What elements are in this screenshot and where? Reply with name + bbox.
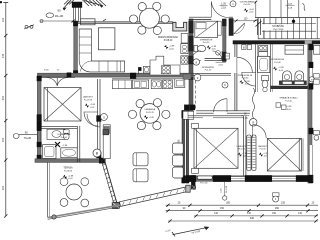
terrace round table with chairs	[66, 184, 82, 200]
wc tags	[193, 59, 199, 65]
corridor wall y116	[188, 115, 243, 117]
wc small rect	[226, 53, 230, 59]
vanity double sink	[283, 71, 292, 81]
wc door arcs	[192, 51, 202, 61]
unit2 bathroom fixtures	[259, 45, 268, 51]
roof slope lines	[63, 1, 71, 9]
wall between bedrooms	[243, 116, 245, 176]
svg-text:P=4,50: P=4,50	[244, 4, 251, 6]
small fixture symbol	[25, 25, 28, 28]
svg-text:P=9,40: P=9,40	[285, 100, 292, 102]
vertical dimension ruler left	[5, 3, 7, 217]
vestibule door leaf	[234, 23, 245, 34]
svg-text:P=5,80: P=5,80	[274, 62, 281, 64]
svg-text:LANDSKT: LANDSKT	[237, 145, 247, 148]
svg-text:P=1,50: P=1,50	[205, 70, 212, 72]
bedroom1 left exterior wall	[37, 76, 41, 160]
svg-text:+2,85: +2,85	[149, 117, 154, 119]
dining table with 6 chairs	[139, 8, 159, 28]
duct tall rect	[103, 125, 110, 159]
veranda thin wall x98	[97, 79, 99, 158]
svg-text:-0,05: -0,05	[211, 49, 215, 51]
right outside marks	[314, 74, 320, 78]
svg-text:P=17,50: P=17,50	[84, 99, 93, 101]
svg-text:90: 90	[57, 9, 61, 13]
svg-text:P=28,40: P=28,40	[164, 40, 173, 42]
circle tag A	[101, 114, 108, 121]
bottom dimension chains	[166, 204, 318, 206]
circle tag right wall	[309, 77, 314, 82]
svg-text:290: 290	[275, 207, 280, 210]
dim tag circle	[273, 193, 279, 197]
entry tag boxes	[242, 45, 246, 50]
bottom exterior wall with windows	[186, 176, 313, 182]
main vertical wall center	[189, 19, 193, 111]
svg-text:200: 200	[1, 185, 5, 190]
dashed line corridor	[195, 76, 197, 111]
bedroom2 door arc	[253, 125, 267, 138]
svg-text:P=4,41: P=4,41	[61, 137, 68, 139]
svg-text:STUBIŠTE: STUBIŠTE	[272, 25, 284, 28]
wall right of vestibule	[256, 19, 258, 35]
right exterior wall	[308, 44, 312, 183]
circle tag 9	[194, 74, 201, 81]
entrance door arc	[211, 2, 229, 18]
unit2 bathroom walls	[255, 44, 257, 92]
lounge chairs terrace	[133, 153, 148, 166]
bedroom2 stools	[276, 103, 281, 107]
bathroom2 door arc	[242, 72, 256, 86]
dim line left of stairs	[255, 1, 257, 17]
svg-text:TERASA: TERASA	[63, 167, 73, 170]
small dark square hall	[103, 130, 109, 135]
railing above stairs	[269, 0, 271, 17]
terrace drain	[52, 215, 56, 219]
svg-text:120: 120	[1, 17, 5, 22]
svg-text:B: B	[243, 45, 245, 49]
cut squiggle corridor2	[252, 88, 254, 118]
svg-text:-0,02: -0,02	[169, 48, 175, 50]
svg-text:LANDSKT: LANDSKT	[83, 96, 94, 99]
svg-text:P=25,00: P=25,00	[64, 171, 73, 173]
wc toilet	[194, 45, 198, 51]
wc bottom wall	[205, 57, 223, 59]
top wall storage	[189, 16, 211, 18]
bathroom1 bottom wall	[35, 159, 105, 163]
svg-text:KUPAONICA: KUPAONICA	[58, 133, 71, 136]
veranda round table 6 chairs	[140, 104, 160, 124]
svg-text:DNEVNI BORAVAK: DNEVNI BORAVAK	[158, 36, 179, 39]
wc circle tag	[216, 51, 221, 56]
hall door arcs	[84, 112, 98, 126]
svg-text:SPREMIŠTE: SPREMIŠTE	[200, 38, 213, 41]
svg-text:SPAVAĆA SOBA 2: SPAVAĆA SOBA 2	[279, 96, 298, 99]
svg-text:1,05: 1,05	[221, 2, 226, 5]
svg-text:VJETROBRAN: VJETROBRAN	[240, 0, 255, 3]
kitchenette unit2	[285, 45, 304, 54]
svg-text:30+2,08: 30+2,08	[226, 185, 228, 193]
shaft below	[182, 111, 185, 184]
svg-text:+2,88: +2,88	[62, 145, 68, 147]
svg-text:90: 90	[25, 131, 28, 135]
chimney flue U	[173, 22, 187, 31]
unit2 entry door arc	[237, 57, 253, 73]
dim line top right	[233, 20, 257, 22]
shaft wall segs	[183, 74, 191, 79]
circle tag 6	[222, 82, 228, 88]
thick wall below stairs	[233, 41, 320, 44]
wall below wc	[191, 72, 231, 74]
svg-text:P=25,35: P=25,35	[146, 112, 155, 114]
bedroom3 nightstands	[192, 123, 199, 128]
wall storage right	[223, 19, 226, 62]
corridor door arc	[214, 99, 227, 112]
svg-text:150: 150	[220, 207, 225, 210]
terrace edge	[47, 163, 49, 218]
bathroom1 top wall	[41, 125, 77, 127]
bench planter	[120, 187, 189, 207]
double bed bedroom1	[44, 88, 81, 122]
horizontal wall mid (y76)	[38, 73, 194, 77]
svg-text:2,18: 2,18	[221, 7, 226, 10]
wall vestibule	[229, 19, 233, 36]
wardrobe bedroom2	[247, 135, 251, 171]
window box on top wall	[81, 19, 96, 25]
kitchen counters unit1	[150, 56, 180, 75]
svg-text:P=5,50: P=5,50	[260, 149, 266, 151]
svg-text:VERANDA: VERANDA	[145, 108, 156, 111]
svg-text:SPREMIŠTE: SPREMIŠTE	[202, 66, 215, 69]
svg-text:P=3,50: P=3,50	[203, 42, 210, 44]
exterior wall left (living)	[74, 22, 78, 77]
corridor left wall	[234, 44, 236, 57]
top wall living room	[76, 21, 174, 23]
double bed bedroom2	[267, 138, 301, 171]
wardrobe double doors bedroom1	[42, 76, 76, 78]
lounge sofa column	[173, 143, 184, 154]
bathroom1 basin and toilet	[47, 129, 65, 139]
section circle B	[93, 149, 101, 157]
svg-text:235: 235	[281, 201, 286, 204]
svg-text:145: 145	[1, 53, 5, 58]
svg-text:+2,88: +2,88	[169, 46, 175, 48]
hatched angled wall	[104, 160, 117, 205]
bathroom1 tub and washer	[43, 145, 56, 159]
veranda kitchen counter	[112, 78, 186, 80]
window dimension tag 30+30	[46, 13, 54, 18]
svg-text:17x17,6/28: 17x17,6/28	[273, 29, 285, 31]
wall above bedroom2	[271, 86, 308, 89]
svg-text:PVC 060: PVC 060	[200, 182, 208, 184]
sofa L-shaped	[79, 29, 124, 72]
svg-text:30+30: 30+30	[55, 14, 64, 18]
svg-text:70+30: 70+30	[24, 136, 32, 140]
svg-text:640: 640	[250, 217, 255, 220]
storage room spremiste	[195, 21, 218, 37]
wc elevation diamond	[207, 45, 211, 49]
double bed bedroom3	[194, 128, 238, 168]
window tag 90 70+30	[13, 134, 19, 139]
svg-text:155: 155	[1, 137, 5, 142]
rug living room	[98, 28, 115, 50]
svg-text:KUPAONICA: KUPAONICA	[271, 58, 284, 61]
svg-text:450: 450	[1, 95, 5, 100]
svg-text:+2,88: +2,88	[68, 175, 74, 177]
svg-text:PREDSOBLJE: PREDSOBLJE	[238, 75, 253, 77]
staircase	[255, 17, 320, 19]
corridor wall y111	[196, 110, 250, 112]
bathroom1 right wall	[76, 126, 78, 162]
scale arrow	[173, 227, 209, 234]
svg-text:LANDSKT: LANDSKT	[258, 145, 268, 148]
chimney block top-left	[72, 2, 82, 7]
